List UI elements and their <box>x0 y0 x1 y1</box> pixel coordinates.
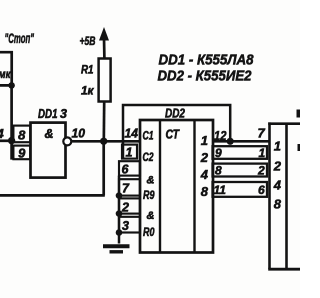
connection box pin11 to pin6 <box>213 182 268 197</box>
svg-text:7: 7 <box>122 182 130 196</box>
svg-text:3: 3 <box>122 219 129 233</box>
svg-text:2: 2 <box>200 150 209 165</box>
svg-text:8: 8 <box>215 163 222 177</box>
pin 6 number box <box>119 161 140 176</box>
svg-text:9: 9 <box>18 146 26 161</box>
svg-text:DD1: DD1 <box>38 107 58 121</box>
junction dot pin 2 <box>116 210 123 217</box>
svg-text:"Стоп": "Стоп" <box>5 30 35 46</box>
DD2 left field divider <box>159 120 161 253</box>
connection box pin9 to pin1 <box>213 146 268 160</box>
svg-text:&: & <box>147 174 155 186</box>
svg-text:C2: C2 <box>143 152 154 164</box>
pin 8 number box <box>13 126 30 143</box>
pin 1 number box <box>122 145 137 160</box>
pin 9 number box <box>13 146 30 161</box>
svg-text:мк: мк <box>0 67 11 81</box>
junction dot pin 7 <box>116 192 123 199</box>
svg-text:1: 1 <box>259 146 266 160</box>
svg-text:R9: R9 <box>143 190 155 202</box>
decoder DD3 left edge (partial chip) <box>268 122 271 269</box>
feedback wire pin12(Q0) to pin1(C2) <box>123 105 230 159</box>
DD2 right field divider <box>193 120 195 253</box>
svg-text:1: 1 <box>274 139 281 154</box>
svg-text:DD2: DD2 <box>165 107 185 121</box>
junction dot feedback tap <box>227 138 234 145</box>
svg-text:10: 10 <box>72 126 86 140</box>
wire DD2 pin12 to DD3 pin7 <box>213 140 270 143</box>
svg-text:4: 4 <box>200 167 209 182</box>
svg-text:8: 8 <box>201 184 209 199</box>
switch SB "Стоп" box (cut off at left edge) <box>0 52 12 85</box>
svg-text:4: 4 <box>273 177 282 192</box>
connection box pin8 to pin2 <box>213 163 268 177</box>
ground bus along pins 6,7,2,3 <box>118 176 121 244</box>
svg-text:1к: 1к <box>81 86 95 98</box>
wire to pin 9 box <box>12 141 15 159</box>
wire node to DD2 pin 14 (C1) <box>104 140 140 143</box>
svg-text:8: 8 <box>18 128 26 143</box>
pin 2 number box <box>119 198 140 214</box>
svg-text:2: 2 <box>257 163 265 177</box>
svg-text:3: 3 <box>60 107 67 121</box>
svg-text:R1: R1 <box>81 65 94 77</box>
svg-text:+5В: +5В <box>80 36 96 48</box>
svg-text:1: 1 <box>126 146 133 160</box>
ground symbol <box>103 246 130 252</box>
pin 7 number box <box>119 179 140 195</box>
wire from pin 4 (off-screen gate output) <box>0 139 14 142</box>
svg-text:8: 8 <box>274 196 282 211</box>
svg-text:2: 2 <box>121 200 129 214</box>
counter DD2 body <box>140 120 213 253</box>
svg-text:6: 6 <box>258 183 265 197</box>
DD3 designator fragment (cut off) <box>297 110 301 118</box>
svg-text:2: 2 <box>273 158 282 173</box>
svg-text:12: 12 <box>214 128 227 143</box>
long wire to left edge <box>0 194 105 197</box>
wire gate output to node <box>71 140 103 143</box>
wire switch to gate input node <box>10 85 13 140</box>
svg-text:C1: C1 <box>143 130 154 142</box>
decoder DD3 bottom edge <box>268 268 300 271</box>
power arrow +5V <box>99 27 109 41</box>
svg-text:DD1 - К555ЛА8: DD1 - К555ЛА8 <box>159 51 255 68</box>
DD3 body label fragment (cut off) <box>298 144 301 151</box>
decoder DD3 top edge <box>268 122 300 125</box>
junction dot pin 3 <box>116 229 123 236</box>
svg-text:7: 7 <box>258 126 266 141</box>
svg-text:1: 1 <box>201 133 208 148</box>
inversion bubble on gate output <box>63 137 71 145</box>
R1 bottom lead <box>102 102 105 142</box>
svg-text:СТ: СТ <box>166 127 180 142</box>
resistor R1 body <box>99 59 111 102</box>
svg-text:14: 14 <box>125 127 139 141</box>
pin 3 number box <box>119 217 140 233</box>
junction node dot (R1 / gate out / DD2 C1) <box>100 138 107 145</box>
junction dot at switch output <box>8 82 15 89</box>
svg-text:DD2 - К555ИЕ2: DD2 - К555ИЕ2 <box>158 68 253 85</box>
svg-text:&: & <box>44 127 53 141</box>
svg-text:R0: R0 <box>143 227 155 239</box>
junction dot at gate inputs <box>8 137 15 144</box>
svg-text:&: & <box>147 210 155 222</box>
svg-text:6: 6 <box>122 162 130 176</box>
svg-text:11: 11 <box>214 183 227 197</box>
wire node down to bottom rail <box>102 141 105 195</box>
NAND gate DD1.3 body <box>31 123 66 178</box>
svg-text:9: 9 <box>215 146 222 160</box>
decoder DD3 field divider <box>285 124 288 269</box>
